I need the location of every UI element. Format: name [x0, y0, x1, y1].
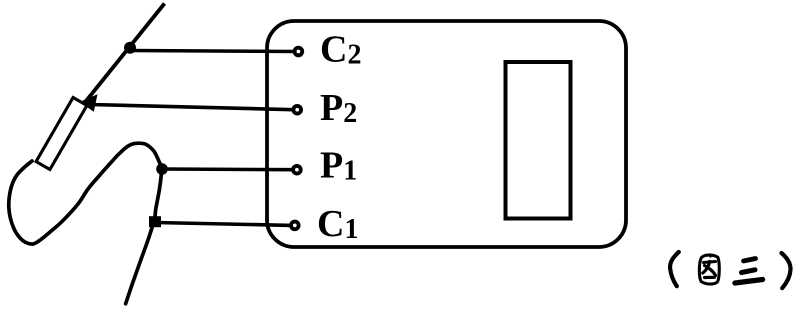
lead wire curve (coiled test lead)	[9, 143, 162, 304]
junction square (C1 tap)	[149, 216, 161, 227]
caption open paren （	[670, 252, 679, 286]
caption character 图	[699, 255, 719, 285]
terminal P1	[293, 166, 301, 174]
display window	[506, 62, 571, 219]
svg-text:P1: P1	[320, 145, 357, 187]
junction dot (C2 tap)	[124, 42, 136, 54]
svg-text:P2: P2	[320, 87, 357, 129]
terminal C2	[295, 48, 303, 56]
caption character 三	[735, 259, 763, 284]
terminal P2	[293, 106, 301, 114]
wire C1	[155, 223, 291, 226]
terminal C1	[291, 222, 299, 230]
junction dot (P1 tap)	[156, 163, 168, 175]
caption close paren ）	[782, 253, 791, 288]
svg-text:C1: C1	[317, 203, 358, 245]
wire P1	[162, 167, 293, 171]
instrument box (earth tester body)	[267, 21, 626, 247]
earth electrode rod	[36, 97, 87, 169]
arrowhead on P2 lead	[80, 94, 98, 112]
wire C2	[130, 51, 294, 52]
svg-text:C2: C2	[320, 29, 361, 71]
wire P2	[90, 105, 293, 110]
electrode down-lead (diagonal line)	[84, 4, 165, 104]
